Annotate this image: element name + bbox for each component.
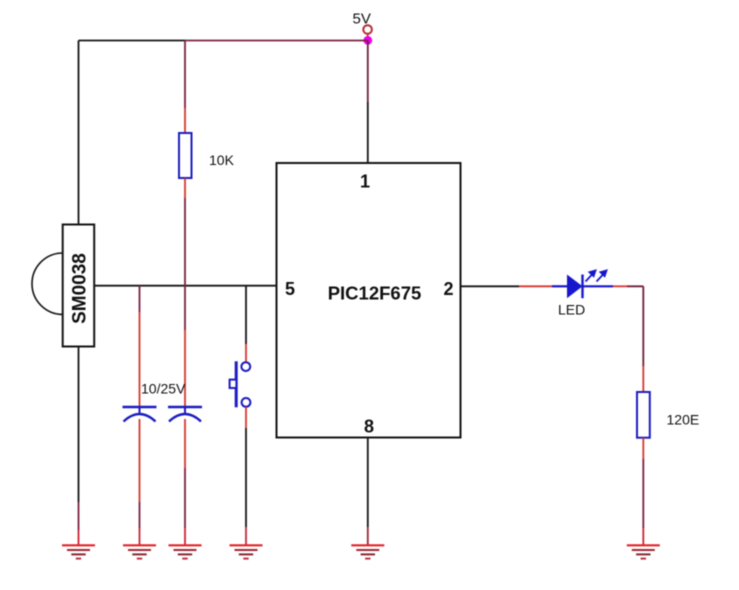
wire U1 pin2 out (black): [461, 285, 520, 287]
pin stub switch top (red): [245, 344, 247, 362]
pin stub R2 top (red): [642, 366, 644, 392]
svg-text:8: 8: [364, 416, 374, 436]
wire SM0038 bottom (dark red): [78, 502, 80, 530]
wire SM0038 output to bus: [94, 285, 277, 287]
wire C2 bottom (red): [184, 419, 186, 468]
wire C1 bottom (dark red): [139, 502, 141, 528]
ground G6: [627, 545, 660, 558]
svg-text:PIC12F675: PIC12F675: [328, 283, 422, 304]
svg-text:10K: 10K: [209, 152, 235, 168]
svg-text:10/25V: 10/25V: [141, 381, 186, 397]
capacitor C2: [168, 407, 202, 422]
emission arrow 2: [597, 271, 607, 282]
pin stub switch bottom (red): [245, 407, 247, 428]
svg-text:120E: 120E: [667, 412, 700, 428]
power terminal circle 5V: [363, 25, 372, 34]
wire to ground (dark red): [642, 459, 644, 528]
IC U1 PIC12F675: [277, 163, 461, 438]
LED D1: [552, 271, 613, 318]
pin stub to ground (red): [367, 527, 369, 545]
svg-text:5: 5: [285, 279, 295, 299]
wire top horizontal left (black): [79, 40, 186, 42]
ground G5: [351, 545, 384, 558]
pin stub R2 bottom (red): [642, 438, 644, 459]
resistor R2 120E: [637, 392, 699, 438]
pin stub C1 top (red): [139, 312, 141, 407]
power stub: [367, 34, 369, 37]
capacitor C1: [123, 407, 157, 422]
wire SM0038 bottom (black): [78, 347, 80, 503]
resistor R1 10K: [179, 41, 235, 286]
wire button branch upper (black): [245, 286, 247, 344]
wire C2 bottom (dark red): [184, 468, 186, 528]
junction dot at 5V node: [363, 36, 372, 45]
pin stub to ground (red): [642, 528, 644, 545]
wire right column down (dark red): [642, 286, 644, 366]
IR receiver U2 SM0038 body: [32, 225, 94, 347]
wire cap branch C2 upper (dark red): [184, 286, 186, 330]
pin stub to ground (red): [78, 530, 80, 545]
wire button branch lower (black): [245, 428, 247, 527]
wire U1 pin8 down (black): [367, 438, 369, 528]
pin stub to ground (red): [184, 528, 186, 545]
pin stub LED anode (red): [519, 285, 552, 287]
ground G3: [169, 545, 202, 558]
wire 5V down upper (dark red): [367, 41, 369, 103]
pin stub LED cathode (red): [613, 285, 627, 287]
wire top horizontal right (dark red): [185, 40, 368, 42]
wire cap branch C1 upper (dark red): [139, 286, 141, 312]
ground G1: [62, 545, 95, 558]
svg-text:1: 1: [360, 171, 370, 191]
svg-text:SM0038: SM0038: [70, 253, 91, 324]
wire C1 bottom (red): [139, 419, 141, 502]
emission arrow 1: [586, 271, 596, 282]
wire corner to R2 (dark red): [627, 285, 643, 287]
wire 5V down lower (black) to U1 pin1: [367, 102, 369, 163]
ground G2: [123, 545, 156, 558]
pin stub to ground (red): [245, 527, 247, 545]
pin stub to ground (red): [139, 528, 141, 545]
wire left column top (black): [78, 41, 80, 226]
pin stub C2 top (red): [184, 330, 186, 407]
svg-text:2: 2: [443, 279, 453, 299]
push button SW1: [230, 361, 251, 407]
svg-text:LED: LED: [558, 302, 585, 318]
ground G4: [230, 545, 263, 558]
